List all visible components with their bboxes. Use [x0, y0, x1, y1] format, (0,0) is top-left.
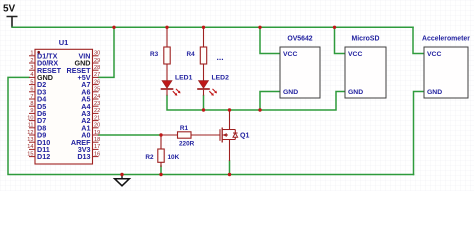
module MicroSD — [345, 36, 386, 99]
wire: Q1 source to ground rail — [229, 161, 231, 175]
svg-text:9: 9 — [30, 108, 33, 114]
node junction at 203.5,27.3 — [202, 26, 205, 29]
svg-text:LED2: LED2 — [212, 74, 230, 81]
node junction at 114,27.3 — [112, 26, 115, 29]
svg-text:3: 3 — [30, 65, 33, 71]
U1 pin 14 D11 — [27, 144, 50, 154]
svg-text:GND: GND — [427, 89, 442, 96]
U1 pin 24 A5 — [81, 94, 100, 104]
wire: LED2 cathode to bus — [203, 96, 205, 111]
svg-text:15: 15 — [27, 151, 33, 157]
svg-text:VCC: VCC — [348, 51, 362, 58]
U1 pin 8 D5 — [29, 101, 46, 111]
U1 pin 25 A6 — [81, 87, 100, 97]
svg-text:24: 24 — [94, 94, 100, 100]
svg-text:10: 10 — [27, 115, 33, 121]
svg-text:GND: GND — [348, 89, 363, 96]
svg-text:29: 29 — [94, 58, 100, 64]
svg-text:10K: 10K — [168, 154, 180, 161]
op-amp U1 (MCU symbol) — [35, 38, 93, 164]
svg-text:D12: D12 — [37, 152, 50, 161]
svg-text:220R: 220R — [179, 140, 195, 147]
wire: switched-ground bus under LEDs — [167, 92, 345, 111]
svg-text:LED1: LED1 — [175, 74, 193, 81]
svg-text:GND: GND — [283, 89, 298, 96]
svg-text:R2: R2 — [145, 154, 154, 161]
svg-text:16: 16 — [94, 151, 100, 157]
svg-text:6: 6 — [30, 87, 33, 93]
svg-text:U1: U1 — [59, 38, 69, 47]
svg-text:R3: R3 — [150, 51, 159, 58]
svg-text:VCC: VCC — [427, 51, 441, 58]
U1 pin 4 GND — [29, 72, 53, 82]
node junction at 260,110 — [258, 108, 261, 111]
resistor R1 220R — [161, 125, 220, 147]
U1 pin 7 D4 — [29, 94, 46, 104]
node junction at 122,174.5 — [120, 173, 123, 176]
svg-text:VCC: VCC — [283, 51, 297, 58]
svg-text:7: 7 — [30, 94, 33, 100]
wire: rail to U1 +5V pin — [99, 27, 115, 77]
svg-text:28: 28 — [94, 65, 100, 71]
module OV5642 camera — [280, 36, 320, 99]
U1 pin 30 VIN — [79, 51, 101, 61]
svg-text:20: 20 — [94, 123, 100, 129]
U1 pin 16 D13 — [77, 151, 100, 161]
svg-text:4: 4 — [30, 72, 33, 78]
svg-text:Q1: Q1 — [240, 133, 249, 140]
svg-text:17: 17 — [94, 144, 100, 150]
U1 pin 2 D0/RX — [29, 58, 58, 68]
svg-text:25: 25 — [94, 87, 100, 93]
U1 pin 15 D12 — [27, 151, 50, 161]
svg-text:26: 26 — [94, 79, 100, 85]
wire: U1 GND pin to left down to ground rail — [8, 77, 414, 174]
svg-text:23: 23 — [94, 101, 100, 107]
U1 pin 20 A1 — [81, 123, 100, 133]
svg-text:19: 19 — [94, 130, 100, 136]
svg-text:21: 21 — [94, 115, 100, 121]
U1 pin 6 D3 — [29, 87, 46, 97]
svg-text:18: 18 — [94, 137, 100, 143]
svg-text:14: 14 — [27, 144, 33, 150]
U1 pin 19 A0 — [81, 130, 100, 140]
LED LED2 — [197, 74, 229, 95]
U1 pin 11 D8 — [28, 123, 47, 133]
svg-text:13: 13 — [27, 137, 33, 143]
U1 pin 17 3V3 — [78, 144, 101, 154]
resistor R3 — [150, 27, 170, 80]
node junction at 203.5,110 — [202, 108, 205, 111]
U1 pin 22 A3 — [81, 108, 100, 118]
transistor Q1 (N-MOSFET) — [220, 110, 249, 161]
U1 pin 1 D1/TX — [29, 51, 58, 61]
U1 pin 12 D9 — [27, 130, 46, 140]
node junction at 229.5,174.5 — [228, 173, 231, 176]
ground — [115, 175, 130, 186]
svg-text:12: 12 — [27, 130, 33, 136]
svg-text:...: ... — [217, 52, 224, 62]
svg-text:MicroSD: MicroSD — [352, 36, 380, 43]
svg-text:R4: R4 — [187, 51, 196, 58]
svg-text:OV5642: OV5642 — [287, 36, 312, 43]
svg-text:R1: R1 — [180, 125, 189, 132]
U1 pin 26 A7 — [81, 79, 100, 89]
resistor R2 10K — [145, 135, 179, 167]
U1 pin 23 A4 — [81, 101, 100, 111]
U1 pin 27 +5V — [78, 72, 101, 82]
node junction at 167,27.3 — [165, 26, 168, 29]
U1 pin 3 RESET — [29, 65, 62, 75]
U1 pin 13 D10 — [27, 137, 50, 147]
wire: 5V top rail — [12, 26, 413, 28]
node junction at 334.5,27.3 — [333, 26, 336, 29]
svg-text:Accelerometer: Accelerometer — [422, 36, 470, 43]
svg-text:27: 27 — [94, 72, 100, 78]
U1 pin 18 AREF — [71, 137, 100, 147]
U1 pin 28 RESET — [67, 65, 101, 75]
node junction at 161,135 — [159, 133, 162, 136]
wire: U1 gate drive pin to R2/R1 node — [99, 134, 162, 136]
wire: MicroSD VCC to rail — [335, 27, 346, 53]
svg-text:22: 22 — [94, 108, 100, 114]
U1 pin 29 GND — [75, 58, 101, 68]
svg-text:2: 2 — [30, 58, 33, 64]
wire: OV5642 GND to switched bus — [260, 92, 280, 111]
svg-text:11: 11 — [28, 123, 34, 129]
resistor R4 — [187, 27, 207, 80]
svg-text:5V: 5V — [3, 4, 16, 15]
svg-text:5: 5 — [30, 79, 33, 85]
svg-text:8: 8 — [30, 101, 33, 107]
U1 pin 9 D6 — [29, 108, 46, 118]
wire: OV5642 VCC to rail — [260, 27, 280, 53]
U1 pin 10 D7 — [27, 115, 46, 125]
power flag 5V — [3, 4, 18, 28]
U1 pin 5 D2 — [29, 79, 46, 89]
node junction at 161,174.5 — [159, 173, 162, 176]
module Accelerometer — [422, 36, 470, 99]
wire: Accelerometer GND to ground rail — [414, 92, 425, 175]
node junction at 229.5,110 — [228, 108, 231, 111]
U1 pin 21 A2 — [81, 115, 100, 125]
svg-text:D13: D13 — [77, 152, 90, 161]
LED LED1 — [161, 74, 193, 95]
wire: R2 bottom to ground rail — [160, 166, 162, 175]
svg-text:30: 30 — [94, 51, 100, 57]
wire: Accelerometer VCC from rail end — [413, 27, 424, 53]
svg-text:1: 1 — [30, 51, 33, 57]
node junction at 260,27.3 — [258, 26, 261, 29]
